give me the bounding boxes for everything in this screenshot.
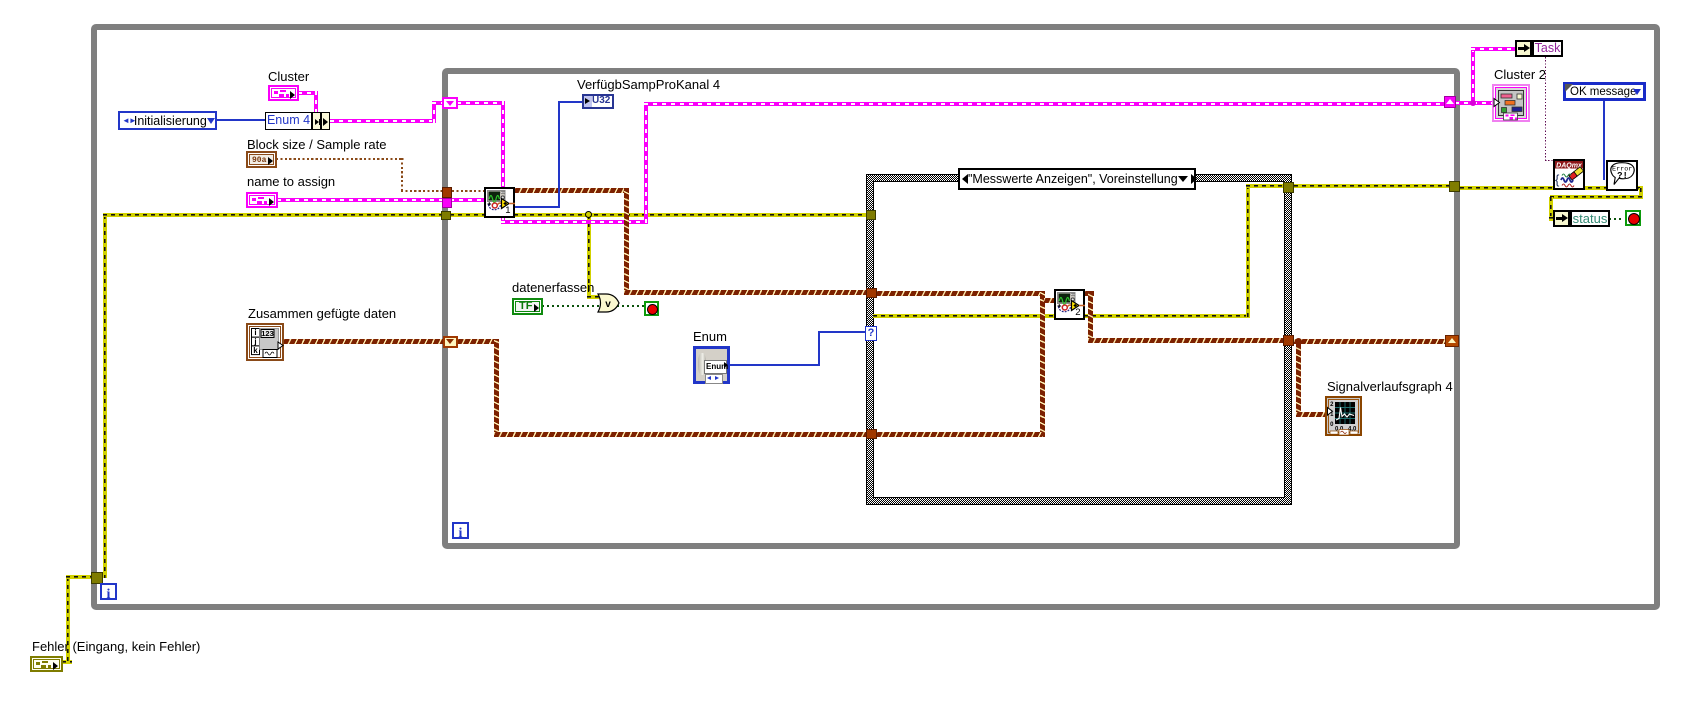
- node simple error handler: [1606, 160, 1638, 191]
- label Fehler (Eingang, kein Fehler): [32, 640, 200, 654]
- wire error: inside case to node2: [873, 314, 1055, 318]
- tunnel brown case left upper: [866, 288, 877, 298]
- svg-text:k: k: [253, 346, 258, 355]
- tunnel magenta inner loop left: [442, 198, 452, 208]
- unbundle Task name cell: [1532, 40, 1563, 57]
- wire error: junction drop to OR gate: [587, 215, 591, 298]
- terminal name to assign (pink cluster): [246, 192, 278, 208]
- wire cluster pink: Cluster terminal to bundle: [298, 91, 318, 95]
- wire cluster pink: bundle out to inner loop shift register: [330, 119, 436, 123]
- shift register brown right: [1445, 335, 1459, 347]
- svg-text:2: 2: [1075, 307, 1080, 318]
- wire error: inner tunnel to node1: [450, 213, 486, 217]
- svg-text:{: {: [1555, 172, 1560, 187]
- wire waveform brown: left SR to case lower tunnel: [457, 339, 499, 344]
- wire error: case right tunnel to inner loop tunnel: [1294, 184, 1452, 188]
- label Zusammen gefuegte daten: [248, 307, 396, 321]
- terminal Fehler (olive error cluster): [30, 656, 63, 672]
- iteration terminal inner loop: [452, 522, 469, 539]
- wire waveform brown: node1 out to case: [514, 188, 629, 193]
- bundle cells next to Enum 4: [312, 112, 321, 130]
- indicator U32: [582, 94, 614, 109]
- terminal Block size (brown numeric cluster): [246, 151, 277, 168]
- wire boolean dotted: TF to OR gate: [542, 305, 599, 307]
- wire error: node2 to case right tunnel: [1084, 314, 1249, 318]
- tunnel brown case left lower: [866, 429, 877, 439]
- wire boolean dotted: status to stop terminal 2: [1609, 218, 1624, 220]
- wire waveform brown: case right tunnel to right SR and graph: [1294, 339, 1446, 344]
- inner while loop frame: [442, 68, 1460, 549]
- outer while loop frame: [91, 24, 1660, 610]
- unbundle status arrow cell: [1553, 210, 1570, 227]
- wire error: inner loop to clear and error nodes: [1460, 186, 1643, 190]
- shift register pink right: [1444, 96, 1456, 108]
- node DAQmx read 1: [484, 187, 515, 218]
- label Signalverlaufsgraph 4: [1327, 380, 1453, 394]
- label Cluster 2: [1494, 68, 1546, 82]
- wire waveform brown: node2 out to case right tunnel: [1084, 291, 1094, 296]
- label datenerfassen: [512, 281, 594, 295]
- wire error: Fehler terminal up to outer tunnel: [62, 660, 72, 664]
- case selector label: [958, 168, 1196, 190]
- case structure border: [866, 174, 1292, 505]
- junction dot error wire: [585, 211, 592, 218]
- constant Enum (enum with ring): [693, 346, 730, 384]
- tunnel brown inner loop left: [442, 187, 452, 198]
- indicator Signalverlaufsgraph 4 (waveform graph): [1325, 396, 1362, 436]
- wire blue: Enum to case selector: [729, 364, 820, 366]
- wire error: node1 to case tunnel: [514, 213, 867, 217]
- shift register brown left: [443, 336, 458, 348]
- iteration terminal outer loop: [100, 583, 117, 600]
- tunnel olive case left: [866, 210, 876, 220]
- wire blocksize dotted brown: [276, 158, 404, 160]
- wire blue: node1 to U32 indicator: [514, 206, 560, 208]
- wire boolean dotted: OR gate to stop terminal: [617, 305, 645, 307]
- conditional stop terminal 2: [1625, 210, 1641, 226]
- tunnel olive outer loop left: [91, 572, 103, 584]
- wire cluster pink: name to assign to tunnel and node1: [277, 198, 446, 202]
- enum constant Initialisierung: [118, 111, 217, 130]
- terminal TF datenerfassen: [512, 298, 543, 315]
- case structure interior: [873, 181, 1285, 498]
- wire error: long run to inner loop: [103, 213, 443, 217]
- terminal Zusammen gefuegte daten (array of waveform): [246, 323, 284, 361]
- tunnel olive inner loop left: [441, 211, 451, 220]
- tunnel olive case right: [1283, 182, 1294, 193]
- svg-text:v: v: [605, 299, 611, 310]
- junction dot pink: [1470, 100, 1476, 106]
- conditional stop terminal 1: [644, 301, 659, 316]
- ring constant OK message: [1563, 82, 1646, 101]
- indicator Cluster 2: [1492, 84, 1530, 122]
- node DAQmx read 2: [1054, 289, 1085, 320]
- wire task pink: right SR to Cluster 2 and Task unbundle: [1455, 101, 1493, 105]
- wire waveform brown: zusammen terminal to left SR: [283, 339, 443, 344]
- node DAQmx clear task: [1553, 159, 1585, 190]
- function OR gate: [597, 293, 620, 313]
- tunnel case selector: [865, 326, 877, 341]
- tunnel olive inner loop right: [1449, 181, 1460, 192]
- shift register pink left: [442, 97, 458, 109]
- label Block size / Sample rate: [247, 138, 386, 152]
- wire task purple dotted: Task unbundle to clear node: [1545, 57, 1546, 162]
- wire error: inside outer loop vertical: [103, 215, 107, 578]
- label name to assign: [247, 175, 335, 189]
- svg-text:?!: ?!: [1617, 171, 1628, 181]
- wire blue: Initialisierung to Enum 4: [216, 119, 266, 121]
- unbundle Task arrow cell: [1515, 40, 1532, 57]
- svg-text:123: 123: [261, 329, 274, 338]
- junction dot brown: [1295, 338, 1302, 345]
- label VerfuegbSampProKanal 4: [577, 78, 720, 92]
- terminal Cluster (pink cluster control): [268, 85, 299, 101]
- wire waveform brown: inside case upper: [876, 291, 1044, 296]
- svg-text:1: 1: [505, 205, 510, 216]
- svg-text:i: i: [254, 328, 256, 337]
- wire blue: OK message to error handler: [1603, 100, 1605, 180]
- tunnel brown case right: [1283, 335, 1294, 346]
- svg-text:j: j: [253, 337, 256, 346]
- unbundle status name cell: [1570, 210, 1610, 227]
- label Enum: [693, 330, 727, 344]
- label Cluster: [268, 70, 309, 84]
- constant Enum 4: [265, 112, 312, 130]
- wire task pink: left SR down behind node1 and to right: [457, 101, 505, 105]
